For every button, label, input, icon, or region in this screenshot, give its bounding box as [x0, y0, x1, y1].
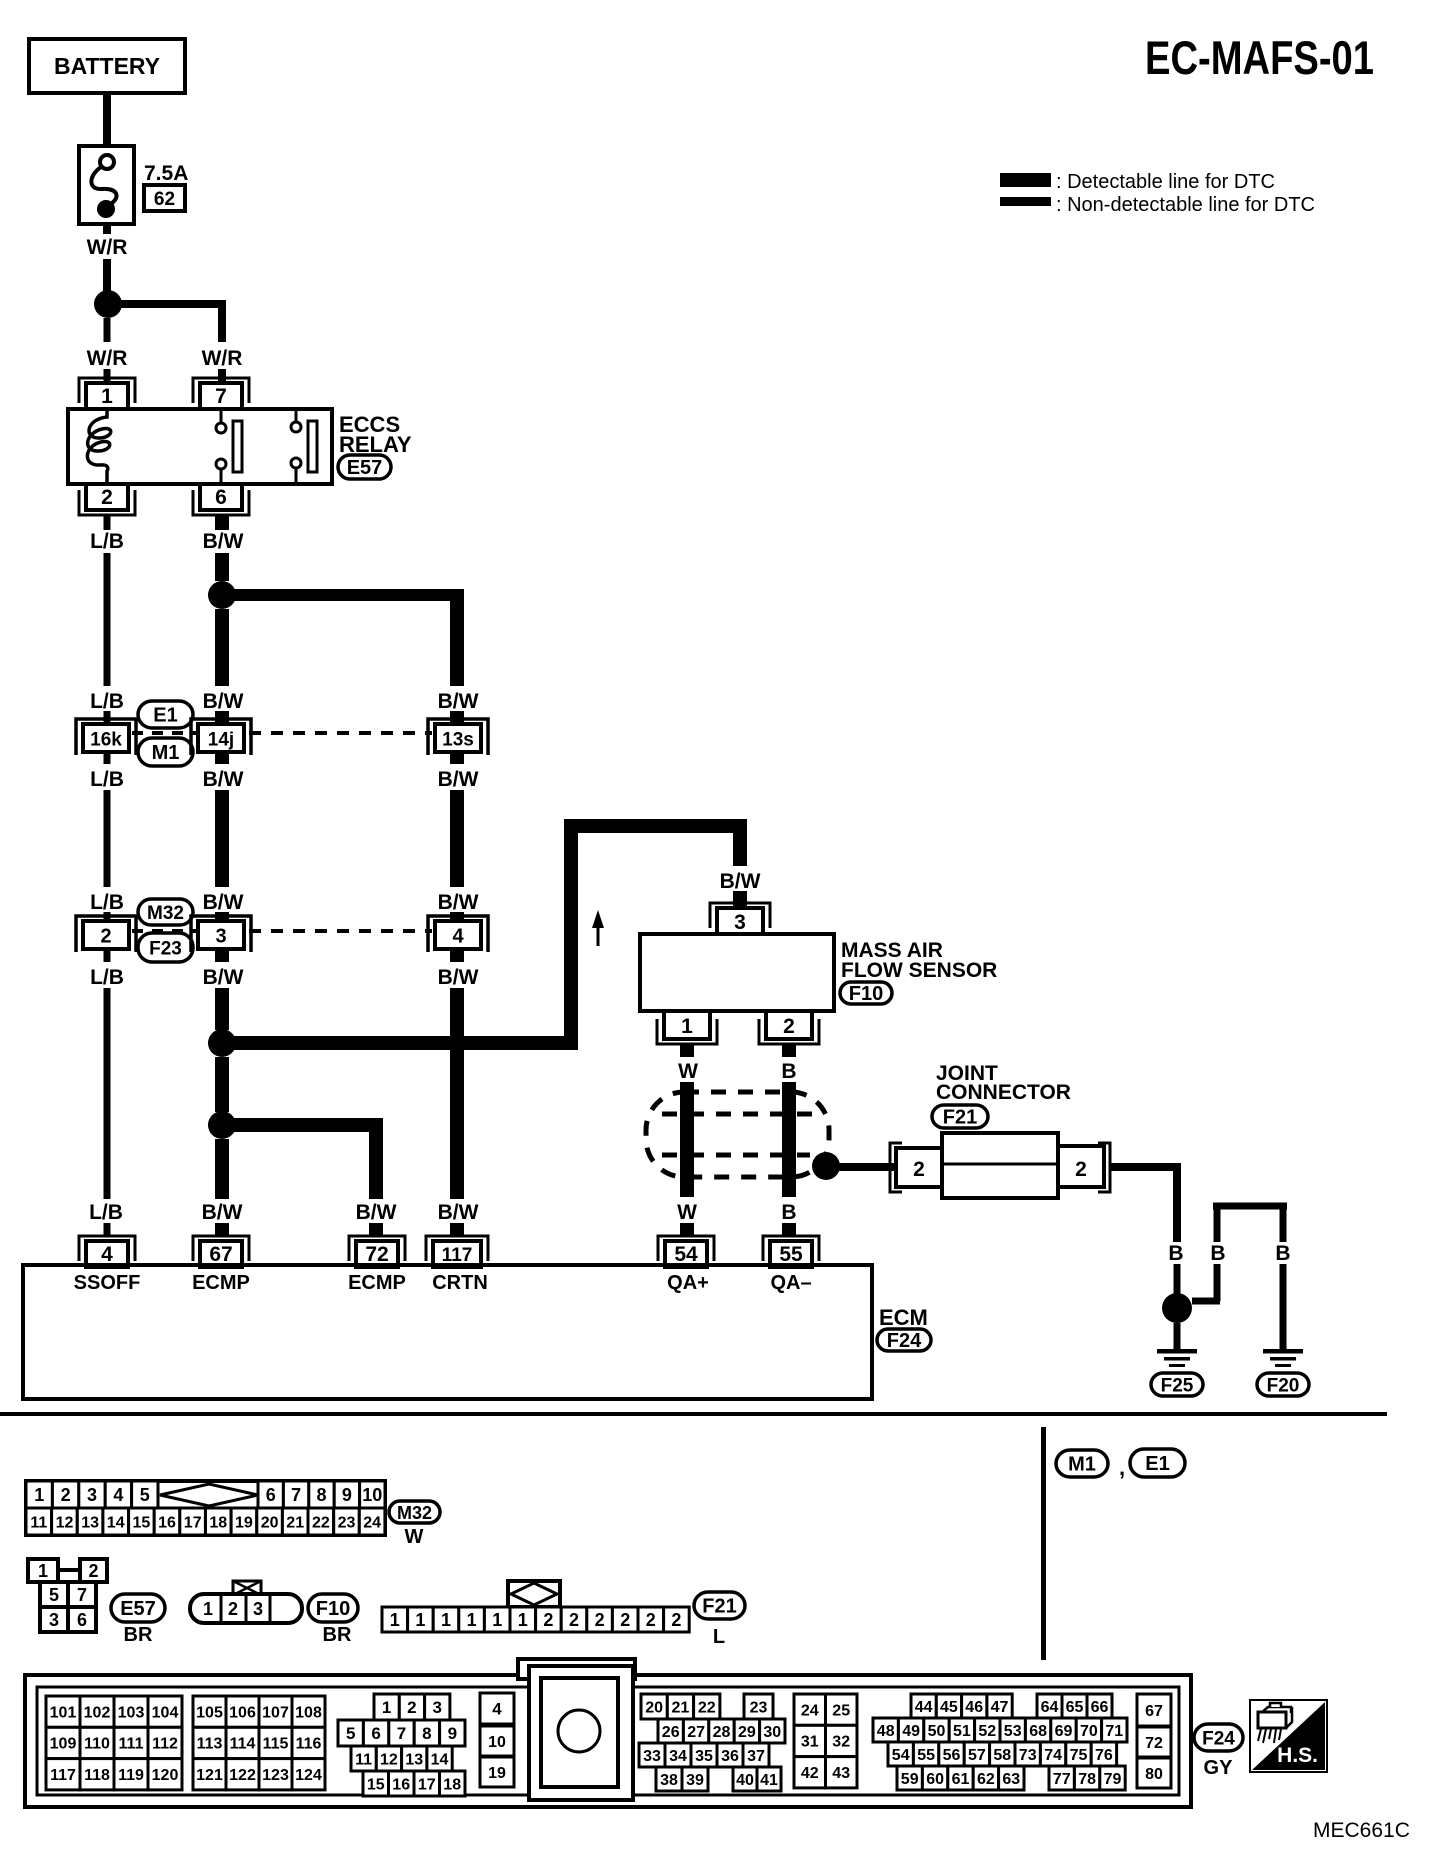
wire stub above conn 2: [104, 912, 111, 922]
svg-text:1: 1: [492, 1610, 502, 1630]
svg-text:1: 1: [441, 1610, 451, 1630]
svg-text:69: 69: [1055, 1723, 1073, 1740]
wire branch MAFS top: [564, 819, 747, 833]
svg-text:79: 79: [1104, 1771, 1122, 1788]
svg-text:B/W: B/W: [438, 891, 479, 914]
svg-text:20: 20: [645, 1699, 663, 1716]
svg-text:11: 11: [355, 1751, 372, 1768]
svg-text:12: 12: [380, 1751, 398, 1768]
battery: [29, 39, 185, 93]
svg-text:121: 121: [196, 1767, 223, 1784]
wire branch MAFS down to label: [733, 819, 747, 866]
H.S. connector icon: [1261, 1707, 1291, 1713]
svg-text:15: 15: [367, 1776, 385, 1793]
svg-text:F25: F25: [1161, 1376, 1194, 1397]
svg-text:77: 77: [1053, 1771, 1071, 1788]
svg-text:B/W: B/W: [203, 891, 244, 914]
svg-text:B/W: B/W: [203, 530, 244, 553]
wire stub below MAFS pin 2: [782, 1044, 796, 1057]
svg-text:2: 2: [646, 1610, 656, 1630]
connector 16k: [76, 719, 136, 755]
wire B left lower: [1174, 1264, 1181, 1294]
svg-text:E57: E57: [347, 457, 383, 479]
svg-text:2: 2: [671, 1610, 681, 1630]
wire branch to relay pin 7: [115, 300, 226, 308]
wire L/B run 1: [104, 553, 111, 686]
svg-text:16k: 16k: [90, 730, 122, 751]
connector face F10 keyway: [233, 1581, 261, 1595]
svg-text:W: W: [677, 1201, 697, 1224]
svg-text:27: 27: [687, 1724, 705, 1741]
junction node B/W to MAFS: [208, 1029, 236, 1057]
svg-text:B: B: [781, 1201, 796, 1224]
ground connector id M1: [1056, 1450, 1108, 1477]
ECM pin 4 SSOFF: [79, 1236, 135, 1261]
current direction arrow: [597, 924, 600, 946]
svg-text:116: 116: [296, 1736, 322, 1753]
svg-text:M1: M1: [1068, 1454, 1096, 1476]
svg-text:47: 47: [991, 1699, 1009, 1716]
H.S. inspection mark: [1250, 1700, 1327, 1772]
relay coil: [87, 409, 110, 484]
svg-text:6: 6: [77, 1610, 87, 1630]
svg-text:CRTN: CRTN: [432, 1272, 488, 1294]
svg-text:118: 118: [84, 1767, 110, 1784]
svg-text:62: 62: [977, 1771, 995, 1788]
svg-text:23: 23: [750, 1699, 768, 1716]
svg-text:ECMP: ECMP: [192, 1272, 250, 1294]
svg-text:104: 104: [152, 1704, 179, 1721]
connector face M32 body: [26, 1481, 385, 1535]
svg-text:14: 14: [107, 1514, 125, 1531]
relay pin 7: [193, 378, 249, 403]
svg-text:W: W: [678, 1060, 698, 1083]
wire stub above ECM pin 4: [104, 1223, 111, 1236]
svg-text:W/R: W/R: [202, 347, 243, 370]
ECM face cluster 44-79: [911, 1694, 936, 1718]
wire L/B run 2: [104, 790, 111, 887]
svg-text:58: 58: [993, 1747, 1011, 1764]
svg-text:E1: E1: [1145, 1453, 1169, 1475]
ECM face column 67-72-80: [1137, 1694, 1171, 1726]
connector face F21 body pins: [382, 1607, 408, 1632]
svg-text:55: 55: [779, 1243, 803, 1266]
wire ground branch down: [1173, 1163, 1181, 1242]
svg-text:CONNECTOR: CONNECTOR: [936, 1081, 1071, 1104]
connector face id F21: [694, 1592, 745, 1619]
svg-text:W: W: [405, 1526, 424, 1548]
svg-text:F24: F24: [887, 1330, 922, 1352]
svg-text:B: B: [1210, 1242, 1225, 1265]
svg-text:2: 2: [88, 1561, 98, 1581]
wire B right lower: [1280, 1264, 1287, 1349]
svg-text:61: 61: [952, 1771, 970, 1788]
svg-text:ECM: ECM: [879, 1305, 928, 1330]
svg-text:19: 19: [235, 1514, 253, 1531]
svg-text:113: 113: [197, 1736, 223, 1753]
svg-text:QA–: QA–: [770, 1272, 811, 1294]
svg-text:80: 80: [1145, 1766, 1163, 1783]
svg-text:14: 14: [431, 1751, 449, 1768]
svg-text:101: 101: [50, 1704, 77, 1721]
svg-text:73: 73: [1019, 1747, 1037, 1764]
ECM face id F24: [1194, 1724, 1243, 1751]
relay pin 6: [193, 490, 249, 515]
ECM face cluster 1-18: [374, 1694, 399, 1720]
svg-text:62: 62: [154, 189, 175, 210]
svg-text:41: 41: [760, 1772, 778, 1789]
relay contact pins 7-6: [220, 409, 223, 424]
svg-text:68: 68: [1029, 1723, 1047, 1740]
wire stub below pin 6: [215, 515, 229, 530]
svg-text:2: 2: [543, 1610, 553, 1630]
wire stub to relay pin 7: [218, 369, 226, 383]
svg-text:67: 67: [209, 1243, 232, 1266]
svg-text:B/W: B/W: [203, 768, 244, 791]
wire stub below 14j: [215, 752, 229, 764]
wire stub below conn 2: [104, 950, 111, 962]
ECM pin 67 ECMP: [193, 1236, 249, 1261]
joint connector id F21: [932, 1105, 988, 1128]
svg-text:B/W: B/W: [438, 1201, 479, 1224]
svg-text:74: 74: [1044, 1747, 1062, 1764]
fuse number 62: [144, 185, 185, 211]
ECCS relay E57 body: [68, 409, 332, 484]
wire fuse to label: [103, 224, 111, 234]
svg-text:B: B: [1168, 1242, 1183, 1265]
svg-text:: Detectable line for DTC: : Detectable line for DTC: [1056, 171, 1275, 193]
svg-text:36: 36: [721, 1748, 739, 1765]
svg-text:108: 108: [295, 1704, 322, 1721]
svg-text:M32: M32: [147, 903, 184, 924]
svg-text:54: 54: [892, 1747, 910, 1764]
svg-text:2: 2: [407, 1698, 416, 1717]
svg-text:B/W: B/W: [438, 966, 479, 989]
wire branch to 13s column: [228, 589, 457, 601]
svg-text:39: 39: [686, 1772, 704, 1789]
svg-text:5: 5: [140, 1485, 150, 1505]
svg-text:B/W: B/W: [203, 966, 244, 989]
svg-text:54: 54: [674, 1243, 698, 1266]
svg-text:4: 4: [113, 1485, 123, 1505]
shield braid (dashed): [646, 1092, 829, 1177]
ECM pin 55 QA-: [763, 1236, 819, 1261]
svg-text:5: 5: [49, 1585, 59, 1605]
svg-text:52: 52: [978, 1723, 996, 1740]
svg-text:M32: M32: [397, 1503, 432, 1523]
svg-text:E1: E1: [153, 705, 177, 727]
wire B/W run 6: [215, 1139, 229, 1199]
ECM connector id F24: [877, 1329, 931, 1351]
wire stub above ECM pin 72: [369, 1223, 383, 1236]
ECM connector face bolt hole: [558, 1710, 600, 1752]
svg-text:3: 3: [734, 911, 746, 934]
dashed link 3-4: [249, 929, 432, 933]
svg-text:F24: F24: [1202, 1729, 1235, 1750]
svg-text:16: 16: [158, 1514, 176, 1531]
svg-text:9: 9: [342, 1485, 352, 1505]
connector face id M32: [389, 1501, 440, 1523]
svg-text:50: 50: [928, 1723, 946, 1740]
wire B right upper: [1280, 1206, 1287, 1242]
ECM connector face top tab: [518, 1659, 635, 1679]
svg-text:1: 1: [203, 1599, 213, 1619]
svg-text:F21: F21: [702, 1596, 736, 1618]
svg-text:8: 8: [316, 1485, 326, 1505]
wire stub above ECM pin 117: [450, 1223, 464, 1236]
svg-text:W/R: W/R: [87, 347, 128, 370]
wire stub above 14j: [215, 711, 229, 724]
svg-text:120: 120: [152, 1767, 179, 1784]
ground F20: [1263, 1349, 1303, 1354]
svg-text:49: 49: [902, 1723, 920, 1740]
svg-text:L/B: L/B: [90, 966, 124, 989]
svg-text:2: 2: [620, 1610, 630, 1630]
ECM pin 54 QA+: [658, 1236, 714, 1261]
MAFS connector id F10: [840, 982, 892, 1004]
wire stub above MAFS pin 3: [733, 891, 747, 908]
wire stub above ECM pin 67: [215, 1223, 229, 1236]
svg-text:12: 12: [56, 1514, 74, 1531]
svg-text:M1: M1: [152, 742, 180, 764]
wire junction to W/R label left: [104, 318, 111, 342]
wire stub above 13s: [450, 711, 464, 724]
svg-text:114: 114: [230, 1736, 256, 1753]
svg-text:53: 53: [1004, 1723, 1022, 1740]
svg-text:6: 6: [215, 486, 227, 509]
svg-text:SSOFF: SSOFF: [74, 1272, 141, 1294]
relay connector id E57: [338, 455, 391, 479]
svg-text:2: 2: [228, 1599, 238, 1619]
wire stub above ECM pin 54: [680, 1223, 694, 1236]
connector face M32 keyway diamond: [160, 1484, 258, 1506]
svg-text:40: 40: [736, 1772, 754, 1789]
svg-text:EC-MAFS-01: EC-MAFS-01: [1145, 31, 1374, 84]
svg-text:24: 24: [363, 1514, 381, 1531]
svg-text:37: 37: [747, 1748, 765, 1765]
svg-text:10: 10: [362, 1485, 382, 1505]
svg-text:123: 123: [262, 1767, 289, 1784]
svg-text:19: 19: [488, 1765, 506, 1782]
svg-text:B/W: B/W: [438, 768, 479, 791]
svg-text:34: 34: [669, 1748, 687, 1765]
wire B run: [782, 1082, 796, 1197]
connector face id F10: [308, 1594, 358, 1622]
svg-text:122: 122: [229, 1767, 256, 1784]
junction node shield ground: [812, 1152, 840, 1180]
svg-text:115: 115: [263, 1736, 289, 1753]
svg-text:59: 59: [901, 1771, 919, 1788]
svg-text:2: 2: [101, 486, 113, 509]
svg-text:MEC661C: MEC661C: [1313, 1819, 1410, 1842]
svg-text:65: 65: [1066, 1699, 1084, 1716]
svg-text:32: 32: [832, 1734, 850, 1751]
wire B middle upper: [1214, 1206, 1221, 1242]
junction node B/W upper: [208, 581, 236, 609]
wire stub above 16k: [104, 711, 111, 724]
connector face F10 body: [190, 1594, 302, 1623]
wire branch ECMP72 horizontal: [228, 1118, 383, 1132]
svg-text:1: 1: [34, 1485, 44, 1505]
connector id M32: [138, 899, 193, 925]
connector face M32 top row pins 6-10: [258, 1481, 283, 1508]
section separator line: [0, 1412, 1387, 1416]
connector face E57 pins 3 6: [40, 1607, 68, 1632]
svg-text:4: 4: [492, 1700, 502, 1719]
legend detectable line sample: [1000, 173, 1051, 187]
wire stub above conn 4: [450, 912, 464, 922]
ECM pin 117 CRTN: [426, 1236, 488, 1261]
svg-text:18: 18: [443, 1776, 461, 1793]
svg-text:BATTERY: BATTERY: [54, 53, 160, 79]
svg-text:76: 76: [1095, 1747, 1113, 1764]
wire stub below 16k: [104, 752, 111, 764]
section divider vertical: [1041, 1427, 1046, 1660]
junction node B/W to ECMP72: [208, 1111, 236, 1139]
MAFS pin 2: [759, 1019, 819, 1044]
joint connector pin 2 right: [1098, 1143, 1110, 1192]
svg-text:78: 78: [1078, 1771, 1096, 1788]
svg-text:3: 3: [253, 1599, 263, 1619]
wire B/W run 1: [215, 553, 229, 581]
svg-text:2: 2: [1075, 1158, 1087, 1181]
connector 13s: [428, 719, 488, 755]
connector face E57 pin 2: [80, 1559, 107, 1582]
svg-text:21: 21: [286, 1514, 304, 1531]
svg-text:F23: F23: [149, 939, 182, 960]
ECM pin 72 ECMP: [349, 1236, 405, 1261]
svg-text:22: 22: [312, 1514, 330, 1531]
connector face M32 bottom row pins 11-24: [26, 1508, 52, 1535]
svg-text:107: 107: [262, 1704, 289, 1721]
svg-text:1: 1: [467, 1610, 477, 1630]
svg-text:7.5A: 7.5A: [144, 162, 188, 185]
svg-text:21: 21: [672, 1699, 690, 1716]
svg-text:20: 20: [261, 1514, 279, 1531]
svg-text:57: 57: [968, 1747, 986, 1764]
wire B/W run 5: [215, 1057, 229, 1112]
svg-text:3: 3: [49, 1610, 59, 1630]
svg-text:102: 102: [84, 1704, 111, 1721]
svg-text:L/B: L/B: [90, 690, 124, 713]
svg-text:7: 7: [77, 1585, 87, 1605]
svg-text:23: 23: [338, 1514, 356, 1531]
relay pin 2: [79, 490, 135, 515]
svg-text:L/B: L/B: [90, 768, 124, 791]
svg-text:H.S.: H.S.: [1277, 1744, 1318, 1767]
svg-text:67: 67: [1145, 1703, 1163, 1720]
svg-text:6: 6: [266, 1485, 276, 1505]
svg-text:117: 117: [442, 1245, 473, 1266]
joint connector body: [942, 1133, 1058, 1198]
svg-text:E57: E57: [120, 1598, 156, 1620]
svg-text:110: 110: [84, 1736, 110, 1753]
svg-text:1: 1: [38, 1561, 48, 1581]
connector face E57 pins 5 7: [40, 1582, 68, 1607]
svg-text:63: 63: [1002, 1771, 1020, 1788]
wire branch MAFS horizontal: [228, 1036, 578, 1050]
svg-text:B/W: B/W: [720, 870, 761, 893]
svg-text:ECMP: ECMP: [348, 1272, 406, 1294]
connector id M1: [138, 738, 193, 766]
ground connector id E1: [1130, 1449, 1185, 1477]
svg-text:17: 17: [184, 1514, 202, 1531]
wire L/B run 3: [104, 988, 111, 1199]
svg-text:F20: F20: [1267, 1376, 1300, 1397]
svg-text:2: 2: [783, 1015, 795, 1038]
svg-text:64: 64: [1041, 1699, 1059, 1716]
svg-text:75: 75: [1070, 1747, 1088, 1764]
MAFS pin 1: [657, 1019, 717, 1044]
junction node ground: [1162, 1293, 1192, 1323]
svg-text:FLOW SENSOR: FLOW SENSOR: [841, 959, 997, 982]
svg-text:5: 5: [346, 1724, 355, 1743]
connector face F21 keyway box: [508, 1581, 560, 1607]
dashed link 2-3: [132, 929, 196, 933]
svg-text:29: 29: [738, 1724, 756, 1741]
svg-text:112: 112: [152, 1736, 178, 1753]
wire branch MAFS up: [564, 826, 578, 1043]
ECM face grid 24-43: [794, 1694, 826, 1725]
relay pin 1: [79, 378, 135, 403]
svg-text:105: 105: [196, 1704, 223, 1721]
svg-text:33: 33: [643, 1748, 661, 1765]
connector id F25: [1151, 1373, 1203, 1396]
svg-text:QA+: QA+: [667, 1272, 709, 1294]
ECM face grid 105-124: [193, 1696, 226, 1727]
wire B/W run 3: [215, 790, 229, 887]
svg-text:GY: GY: [1204, 1757, 1234, 1779]
wire W run: [680, 1082, 694, 1197]
svg-text:13: 13: [81, 1514, 99, 1531]
svg-text:1: 1: [382, 1698, 391, 1717]
svg-text:2: 2: [595, 1610, 605, 1630]
svg-text:2: 2: [61, 1485, 71, 1505]
svg-text:B/W: B/W: [356, 1201, 397, 1224]
svg-text:13: 13: [405, 1751, 423, 1768]
svg-text:11: 11: [30, 1514, 47, 1531]
mass air flow sensor F10 body: [640, 934, 834, 1011]
svg-text:7: 7: [397, 1724, 406, 1743]
svg-text:66: 66: [1091, 1699, 1109, 1716]
svg-text:46: 46: [965, 1699, 983, 1716]
wire shield to joint connector: [839, 1163, 896, 1171]
ECM face grid 101-120: [46, 1696, 80, 1727]
svg-text:51: 51: [953, 1723, 971, 1740]
connector face id E57: [111, 1594, 165, 1622]
svg-text:4: 4: [101, 1243, 113, 1266]
svg-text:109: 109: [50, 1736, 77, 1753]
svg-text:35: 35: [695, 1748, 713, 1765]
wire B middle lower: [1214, 1264, 1221, 1301]
svg-text:22: 22: [698, 1699, 716, 1716]
connector id F23: [138, 933, 193, 962]
wire stub above conn 3: [215, 912, 229, 922]
wire B/W run 2: [215, 609, 229, 686]
connector 3 (M32-F23): [191, 916, 251, 952]
MAFS pin 3: [710, 903, 770, 928]
svg-text:13s: 13s: [442, 730, 474, 751]
ECM body: [23, 1265, 872, 1399]
svg-text:72: 72: [1145, 1735, 1163, 1752]
svg-text:24: 24: [801, 1702, 819, 1719]
svg-text:103: 103: [118, 1704, 145, 1721]
svg-text:28: 28: [713, 1724, 731, 1741]
wire B middle elbow: [1192, 1298, 1220, 1305]
svg-text:18: 18: [209, 1514, 227, 1531]
wire joint connector to ground branch: [1110, 1163, 1181, 1171]
wire stub below conn 3: [215, 950, 229, 962]
